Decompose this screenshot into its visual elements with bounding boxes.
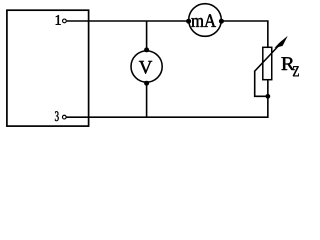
- wire: rheostat bottom lead to junction: [267, 80, 269, 97]
- terminal 1 label "1": [56, 15, 61, 25]
- wire: voltmeter branch, top wire down to voltmeter: [146, 21, 148, 51]
- rheostat label subscript "Z": [293, 66, 299, 76]
- terminal 3 label "3": [55, 111, 59, 121]
- rheostat RZ wiper arrow shaft: [255, 41, 284, 72]
- box: device under test (black box with terminals 1 and 3): [7, 10, 89, 126]
- voltmeter label "V": [139, 61, 152, 74]
- voltmeter V body circle: [131, 51, 162, 82]
- rheostat RZ body: [263, 47, 272, 79]
- ammeter label "mA": [191, 14, 216, 27]
- terminal 3 (open circle): [62, 115, 66, 119]
- wire: bottom wire from terminal 3 to bottom-right corner, up to junction: [67, 96, 268, 117]
- junction node: voltmeter bottom terminal dot: [144, 81, 149, 86]
- terminal 1 (open circle): [63, 19, 67, 23]
- rheostat label "R": [281, 57, 294, 70]
- wire: voltmeter to bottom wire: [146, 83, 148, 118]
- wire: top wire from ammeter to top-right corner, down to rheostat top: [221, 21, 268, 48]
- rheostat RZ wiper arrowhead: [275, 36, 288, 47]
- junction node: rheostat bottom junction dot: [265, 94, 270, 99]
- wire: top wire from terminal 1 to ammeter: [67, 20, 189, 22]
- junction node: voltmeter top terminal dot: [144, 47, 149, 52]
- junction node: ammeter right terminal dot: [219, 19, 224, 24]
- junction node: ammeter left terminal dot: [186, 19, 191, 24]
- wire: wiper return (left of rheostat down and right to junction): [255, 71, 268, 97]
- ammeter mA body circle: [189, 4, 222, 37]
